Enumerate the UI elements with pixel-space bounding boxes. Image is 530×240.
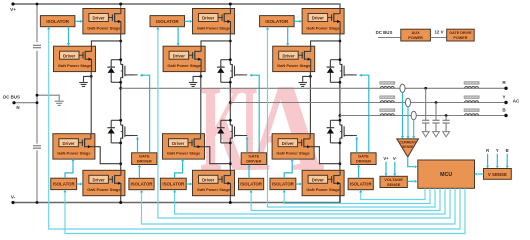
ground DC midpoint <box>55 100 64 102</box>
svg-text:ISOLATOR: ISOLATOR <box>350 182 373 187</box>
wire gate driver 2 out2 <box>252 75 259 153</box>
wire DC link rail <box>36 4 38 42</box>
isolator phase 3 low-side <box>270 178 296 189</box>
wire isolator2b to GaN <box>186 183 190 185</box>
svg-text:GaN Power Stage: GaN Power Stage <box>58 63 92 68</box>
wire gate stub Q3a <box>353 74 356 76</box>
ground phase 2 clamp <box>189 82 198 84</box>
wire gate driver 3 out2 <box>362 75 369 153</box>
wire GaN1C source link <box>95 147 121 164</box>
capacitor filter C1 <box>425 88 427 120</box>
wire gate driver 1 out1 <box>137 139 139 153</box>
node rail mid1 <box>36 94 39 97</box>
node phase 2 V+ tap <box>229 3 232 6</box>
wire clamp to GaN2C drain <box>200 76 202 133</box>
wire 12V <box>430 37 446 39</box>
svg-text:SENSE: SENSE <box>402 145 414 149</box>
node filter tap B <box>445 114 448 117</box>
node phase 1 upper <box>119 40 122 43</box>
node rail mid2 <box>36 101 39 104</box>
node phase 3 clamp <box>309 75 312 78</box>
node phase 3 lower <box>339 162 342 165</box>
svg-text:V-: V- <box>11 195 16 200</box>
svg-text:GaN Power Stage: GaN Power Stage <box>306 187 340 192</box>
wire gate driver 1 out2 <box>142 75 149 153</box>
isolator phase 2 gate-driver <box>239 178 264 189</box>
svg-text:DRIVER: DRIVER <box>137 159 152 164</box>
svg-text:MCU: MCU <box>440 172 452 178</box>
wire gate driver 2 out1 <box>246 139 248 153</box>
wire phase line Y <box>230 102 506 104</box>
isolator phase 3 gate-driver <box>348 178 373 189</box>
svg-text:DC BUS: DC BUS <box>376 30 393 35</box>
svg-text:R: R <box>486 148 489 153</box>
wire to ground phase 1 <box>84 76 92 81</box>
node phase 2 upper <box>229 40 232 43</box>
wire clamp to GaN3C drain <box>309 76 311 133</box>
GaN power stage phase 2 bottom <box>193 170 235 195</box>
wire v+ sense arrow <box>385 162 387 174</box>
svg-text:Driver: Driver <box>202 177 214 182</box>
GaN power stage phase 3 mid-upper <box>273 46 315 71</box>
node AC terminal R <box>504 87 507 90</box>
wire to ground phase 3 <box>303 76 311 81</box>
node V+ terminal <box>11 2 14 5</box>
wire gate stub Q2b <box>244 135 247 137</box>
transistor Q2a high mid FET <box>217 58 244 83</box>
transistor Q2b low mid FET <box>217 119 244 144</box>
capacitor filter C3 <box>445 116 447 121</box>
wire CT1 sense drop <box>402 93 404 137</box>
inductor L1b <box>464 82 479 89</box>
node phase 1 V+ tap <box>119 3 122 6</box>
svg-text:POWER: POWER <box>408 35 423 40</box>
wire PWM 3 MCU to x267.5 <box>268 29 436 207</box>
wire gate stub Q2a <box>244 74 247 76</box>
svg-text:Driver: Driver <box>282 141 294 146</box>
GaN power stage phase 3 mid-lower <box>272 134 314 159</box>
wire isolator1a to GaN <box>75 20 80 22</box>
wire phase 3 leg vertical <box>339 4 341 9</box>
wire isolator3a to GaN <box>294 20 299 22</box>
isolator phase 2 high-side <box>150 16 185 27</box>
ground chassis Y <box>433 132 440 137</box>
transistor Q1b low mid FET <box>107 119 134 144</box>
wire PWM 9 MCU to x65 <box>65 188 465 233</box>
gate driver phase 3 <box>351 153 376 165</box>
ground chassis B <box>443 132 450 137</box>
isolator phase 1 gate-driver <box>129 178 154 189</box>
svg-text:GaN Power Stage: GaN Power Stage <box>87 187 121 192</box>
svg-text:DRIVER: DRIVER <box>356 159 371 164</box>
gate driver phase 1 <box>132 153 157 165</box>
block AUX POWER <box>401 29 431 41</box>
svg-text:Driver: Driver <box>63 141 75 146</box>
wire isolator1a down-output <box>68 27 70 44</box>
svg-text:ISOLATOR: ISOLATOR <box>131 182 154 187</box>
wire PWM 5 MCU to x174.6 <box>175 188 445 214</box>
svg-text:ISOLATOR: ISOLATOR <box>156 19 180 24</box>
svg-text:Driver: Driver <box>173 53 185 58</box>
svg-text:Driver: Driver <box>93 177 105 182</box>
node rail-top <box>36 3 39 6</box>
ground phase 1 clamp <box>79 82 88 84</box>
wire phase 1 leg vertical <box>120 4 122 9</box>
inductor L3a <box>380 109 395 116</box>
block V SENSE <box>484 169 512 180</box>
wire isolator3a down-output <box>287 27 289 44</box>
svg-text:Y: Y <box>496 148 499 153</box>
svg-text:GaN Power Stage: GaN Power Stage <box>197 187 231 192</box>
svg-text:Driver: Driver <box>93 16 105 21</box>
node phase 1 clamp <box>90 75 93 78</box>
wire isolator2c to gate driver <box>248 167 250 178</box>
wire GaN2C source link <box>205 147 231 164</box>
wire isolator3c to gate driver <box>358 167 360 178</box>
ground chassis R <box>422 132 429 137</box>
GaN power stage phase 3 top <box>302 9 344 34</box>
svg-text:Driver: Driver <box>312 16 324 21</box>
block GATE DRIVE POWER <box>447 29 475 41</box>
wire Y sense arrow <box>496 154 498 166</box>
isolator phase 1 low-side <box>51 178 77 189</box>
wire GaN1B source <box>90 72 92 77</box>
wire R sense arrow <box>487 154 489 166</box>
inductor L3b <box>464 109 479 116</box>
wire CT3 sense drop <box>413 120 415 137</box>
svg-text:GaN Power Stage: GaN Power Stage <box>197 25 231 30</box>
svg-text:N: N <box>16 105 19 110</box>
svg-text:ISOLATOR: ISOLATOR <box>53 182 76 187</box>
inductor L1a <box>380 82 395 89</box>
wire B sense arrow <box>506 154 508 166</box>
wire PWM 4 MCU to x251.1 <box>251 188 440 210</box>
svg-text:GaN Power Stage: GaN Power Stage <box>306 25 340 30</box>
GaN power stage phase 1 mid-upper <box>54 46 96 71</box>
wire CT2 sense drop <box>407 107 409 137</box>
block MCU <box>418 160 475 188</box>
current transformer CT3 <box>411 111 416 119</box>
GaN power stage phase 2 top <box>193 9 235 34</box>
isolator phase 1 high-side <box>40 16 75 27</box>
wire isolator2b up-output <box>175 161 183 178</box>
svg-text:V+: V+ <box>10 7 16 12</box>
svg-text:B: B <box>506 148 509 153</box>
wire neutral stub to ground <box>37 95 59 100</box>
transistor Q1a high mid FET <box>107 58 134 83</box>
GaN power stage phase 1 mid-lower <box>53 134 95 159</box>
current transformer CT1 <box>400 84 405 92</box>
wire v sense to MCU <box>478 173 484 175</box>
wire GaN3B drain link <box>311 41 340 46</box>
wire V- bus <box>13 196 340 203</box>
isolator phase 3 high-side <box>260 16 295 27</box>
svg-text:GATE DRIVE: GATE DRIVE <box>449 31 472 35</box>
node phase 1 V- tap <box>119 201 122 204</box>
wire gate stub Q1b <box>134 135 137 137</box>
wire GaN1B drain link <box>91 41 120 46</box>
wire GaN2B source <box>200 72 202 77</box>
capacitor DC link C2 <box>33 145 41 147</box>
node filter tap Y <box>435 101 438 104</box>
block VOLTAGE SENSE <box>380 176 407 187</box>
wire v- sense arrow <box>394 162 396 174</box>
wire GaN2B drain link <box>201 41 230 46</box>
wire GaN3C source link <box>314 147 340 164</box>
wire isolator1c to gate driver <box>138 167 140 178</box>
svg-text:GaN Power Stage: GaN Power Stage <box>57 151 91 156</box>
svg-text:Driver: Driver <box>202 16 214 21</box>
wire isolator1b to GaN <box>77 183 81 185</box>
svg-text:GaN Power Stage: GaN Power Stage <box>87 25 121 30</box>
current sense amp <box>397 139 419 157</box>
svg-text:GaN Power Stage: GaN Power Stage <box>167 63 201 68</box>
svg-text:ISOLATOR: ISOLATOR <box>272 182 295 187</box>
wire gate stub Q1a <box>134 74 137 76</box>
svg-text:DC BUS: DC BUS <box>3 94 20 99</box>
svg-text:DRIVER: DRIVER <box>246 159 261 164</box>
svg-text:AC: AC <box>513 99 520 104</box>
isolator phase 2 low-side <box>160 178 186 189</box>
wire PWM 7 MCU to x141.5 <box>142 188 456 224</box>
svg-text:Driver: Driver <box>172 141 184 146</box>
svg-text:ISOLATOR: ISOLATOR <box>46 19 70 24</box>
wire phase 2 leg vertical <box>229 4 231 9</box>
svg-text:ISOLATOR: ISOLATOR <box>240 182 263 187</box>
node phase 2 clamp <box>199 75 202 78</box>
node phase 1 output <box>119 87 122 90</box>
GaN power stage phase 1 bottom <box>83 170 125 195</box>
wire PWM 2 MCU to x284.2 <box>284 188 430 203</box>
wire to ground phase 2 <box>193 76 201 81</box>
wire voltage sense to MCU <box>407 180 414 182</box>
GaN power stage phase 3 bottom <box>302 170 344 195</box>
node filter tap R <box>424 87 427 90</box>
wire current sense to MCU <box>408 157 414 167</box>
wire isolator3b to GaN <box>296 183 300 185</box>
svg-text:V+: V+ <box>383 156 389 161</box>
svg-text:Driver: Driver <box>282 53 294 58</box>
transistor Q3a high mid FET <box>327 58 354 83</box>
svg-text:ISOLATOR: ISOLATOR <box>162 182 185 187</box>
svg-text:GaN Power Stage: GaN Power Stage <box>276 151 310 156</box>
svg-text:Y: Y <box>502 94 505 99</box>
node phase 2 V- tap <box>229 201 232 204</box>
capacitor DC link C1 <box>33 44 41 46</box>
wire GaN3B source <box>309 72 311 77</box>
node AC terminal B <box>504 114 507 117</box>
node V- terminal <box>11 201 14 204</box>
wire isolator1b up-output <box>65 161 73 178</box>
wire isolator2a down-output <box>177 27 179 44</box>
svg-text:GaN Power Stage: GaN Power Stage <box>277 63 311 68</box>
GaN power stage phase 1 top <box>83 9 125 34</box>
inductor L2b <box>464 96 479 103</box>
node phase 1 lower <box>119 162 122 165</box>
wire isolator3b up-output <box>284 161 292 178</box>
node phase 2 output <box>229 101 232 104</box>
node phase 3 output <box>339 114 342 117</box>
svg-text:Driver: Driver <box>63 53 75 58</box>
wire DC BUS N line <box>14 102 37 104</box>
svg-text:POWER: POWER <box>453 36 467 40</box>
wire gate stub Q3b <box>353 135 356 137</box>
svg-text:ISOLATOR: ISOLATOR <box>265 19 289 24</box>
node rail-bottom <box>36 201 39 204</box>
wire dc bus to aux <box>378 37 401 39</box>
capacitor filter C2 <box>435 103 437 121</box>
svg-text:V SENSE: V SENSE <box>488 172 507 177</box>
GaN power stage phase 2 mid-upper <box>163 46 205 71</box>
GaN power stage phase 2 mid-lower <box>163 134 205 159</box>
wire PWM 8 MCU to x48.7 <box>49 29 460 229</box>
transistor Q3b low mid FET <box>327 119 354 144</box>
gate driver phase 2 <box>241 153 266 165</box>
svg-text:12 V: 12 V <box>434 30 443 35</box>
wire phase line B <box>340 115 506 117</box>
node phase 3 upper <box>339 40 342 43</box>
ground phase 3 clamp <box>298 82 307 84</box>
svg-text:GaN Power Stage: GaN Power Stage <box>167 151 201 156</box>
svg-text:V-: V- <box>393 156 398 161</box>
wire phase line R <box>121 87 506 89</box>
svg-text:Driver: Driver <box>312 177 324 182</box>
node phase 2 lower <box>229 162 232 165</box>
wire isolator2a to GaN <box>185 20 190 22</box>
wire V+ bus <box>13 4 340 9</box>
node AC terminal Y <box>504 101 507 104</box>
current transformer CT2 <box>405 98 410 106</box>
node N terminal <box>12 101 15 104</box>
wire PWM 1 MCU to x360.7 <box>361 188 425 199</box>
svg-text:SENSE: SENSE <box>387 182 401 187</box>
wire PWM 6 MCU to x157.9 <box>158 29 450 218</box>
wire gate driver 3 out1 <box>356 139 358 153</box>
wire clamp to GaN1C drain <box>90 76 92 133</box>
inductor L2a <box>380 96 395 103</box>
